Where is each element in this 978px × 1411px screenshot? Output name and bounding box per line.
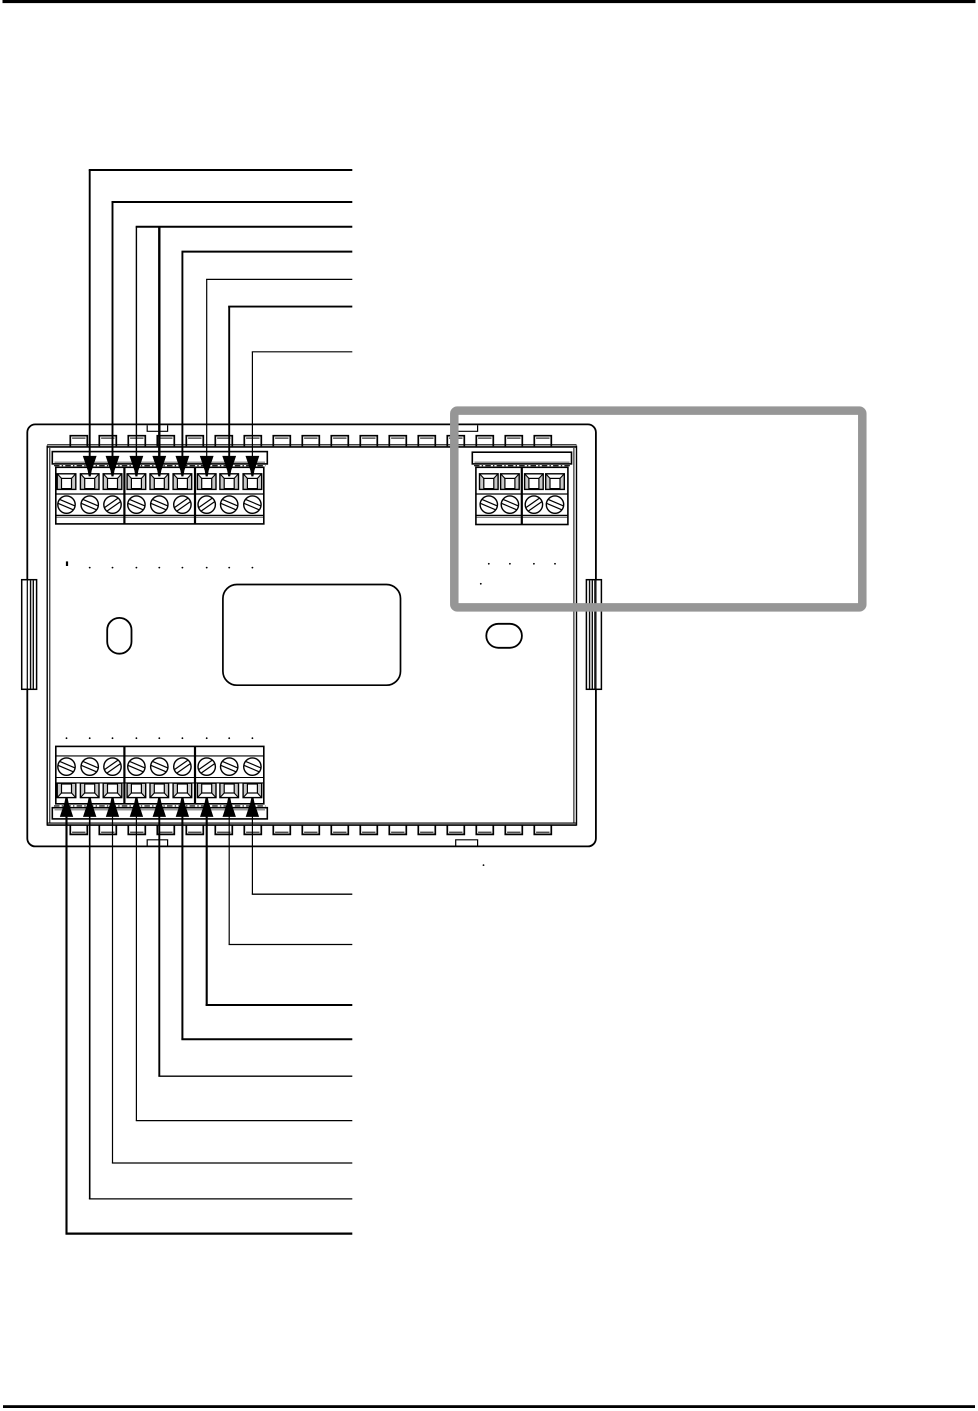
aux terminal 2 screw <box>501 496 518 513</box>
top terminal 1 wire entry <box>57 474 61 490</box>
arrow into top terminal 6 <box>176 456 190 477</box>
sub-base castellated bottom edge <box>47 824 576 826</box>
top terminal 3 wire entry <box>103 474 107 490</box>
aux terminal 3 screw <box>525 496 542 513</box>
bottom-left terminal block cover strip <box>52 808 267 819</box>
sub-base panel right edge <box>576 446 578 826</box>
bottom-left terminal block body <box>56 746 264 803</box>
wire to top terminal 5 <box>158 226 160 460</box>
aux terminal 1 screw <box>480 496 497 513</box>
right oval hole <box>486 624 522 648</box>
top terminal 4 wire entry <box>127 474 131 490</box>
top terminal 2 wire entry <box>80 474 84 490</box>
top-right terminal block cover strip <box>472 452 571 464</box>
bottom-left terminal block hinge dash line <box>54 805 266 807</box>
top-left block group dividers <box>123 467 125 524</box>
arrow into bottom terminal 7 <box>200 797 213 817</box>
arrow into top terminal 4 <box>130 456 144 477</box>
top terminal 6 screw <box>174 496 191 513</box>
bottom terminal 7 screw <box>198 758 215 775</box>
bottom terminal 8 screw <box>221 758 238 775</box>
top-left terminal id marks <box>66 561 68 566</box>
top terminal 2 screw <box>81 496 98 513</box>
bottom terminal 5 wire entry <box>150 783 154 797</box>
wire to bottom terminal 5 <box>158 814 160 1077</box>
top-right terminal block hinge dash line <box>474 465 570 467</box>
top terminal 3 screw <box>104 496 121 513</box>
wire to top terminal 9 <box>251 352 253 460</box>
aux terminal 1 wire entry <box>480 474 484 490</box>
top terminal 5 screw <box>151 496 168 513</box>
wire to bottom terminal 4 <box>135 814 137 1121</box>
arrow into top terminal 7 <box>200 456 214 477</box>
header bar <box>3 0 976 3</box>
bottom terminal 3 wire entry <box>103 783 107 797</box>
top terminal 1 screw <box>58 496 75 513</box>
wire to bottom terminal 7 <box>206 814 208 1006</box>
wire to bottom terminal 8 <box>228 814 230 945</box>
wire to bottom terminal 6 <box>181 814 183 1040</box>
right mounting rail <box>586 580 601 690</box>
bottom terminal 1 screw <box>58 758 75 775</box>
top terminal 9 wire entry <box>243 474 247 490</box>
aux terminal 4 screw <box>546 496 563 513</box>
bottom terminal 4 wire entry <box>127 783 131 797</box>
arrow into bottom terminal 5 <box>153 797 166 817</box>
top-right terminal block body <box>476 467 568 524</box>
bottom-left terminal id marks <box>66 737 68 739</box>
bottom terminal 1 wire entry <box>57 783 61 797</box>
arrow into bottom terminal 8 <box>223 797 236 817</box>
wire to top terminal 4 <box>135 227 137 460</box>
aux terminal 3 wire entry <box>525 474 529 490</box>
bottom terminal 2 screw <box>81 758 98 775</box>
footer rule <box>3 1405 975 1408</box>
wire to top terminal 7 <box>206 279 208 459</box>
sub-base castellated top edge <box>47 444 576 446</box>
bottom terminal 4 screw <box>128 758 145 775</box>
wall plate outer case <box>27 424 596 846</box>
case mounting tab top left <box>147 425 167 431</box>
wire to bottom terminal 2 <box>89 814 91 1200</box>
arrow into bottom terminal 4 <box>130 797 143 817</box>
bottom-left block group dividers <box>123 746 125 803</box>
wire to top terminal 8 <box>228 306 230 459</box>
arrow into bottom terminal 3 <box>106 797 119 817</box>
top terminal 5 wire entry <box>150 474 154 490</box>
top-left terminal block body <box>56 467 264 524</box>
bottom terminal 9 screw <box>244 758 261 775</box>
footer dot <box>483 864 485 866</box>
bottom terminal 7 wire entry <box>197 783 201 797</box>
arrow into top terminal 3 <box>106 456 120 477</box>
top terminal 8 screw <box>221 496 238 513</box>
case mounting tab bottom right <box>456 840 478 846</box>
arrow into top terminal 5 <box>152 456 166 477</box>
top terminal 7 screw <box>198 496 215 513</box>
arrow into bottom terminal 9 <box>246 797 259 817</box>
arrow into bottom terminal 6 <box>176 797 189 817</box>
top terminal 6 wire entry <box>173 474 177 490</box>
top terminal 4 screw <box>128 496 145 513</box>
wire to top terminal 2 <box>89 170 91 460</box>
bottom terminal 5 screw <box>151 758 168 775</box>
aux terminal 2 wire entry <box>501 474 505 490</box>
top-right terminal id marks <box>488 563 490 565</box>
top-right block group divider <box>521 467 523 524</box>
top terminal 7 wire entry <box>197 474 201 490</box>
top-left terminal block cover strip <box>52 452 267 464</box>
wire to top terminal 3 <box>112 202 114 460</box>
left mounting rail <box>22 580 37 690</box>
arrow into top terminal 2 <box>83 456 97 477</box>
case mounting tab top right <box>456 425 478 431</box>
arrow into bottom terminal 2 <box>83 797 96 817</box>
bottom terminal 2 wire entry <box>80 783 84 797</box>
wire to bottom terminal 3 <box>112 814 114 1164</box>
bottom terminal 6 wire entry <box>173 783 177 797</box>
arrow into bottom terminal 1 <box>60 797 73 817</box>
bottom terminal 9 wire entry <box>243 783 247 797</box>
wire to top terminal 6 <box>181 251 183 459</box>
wire to bottom terminal 9 <box>251 814 253 895</box>
bottom terminal 8 wire entry <box>220 783 224 797</box>
arrow into top terminal 8 <box>222 456 236 477</box>
aux terminal 4 wire entry <box>546 474 550 490</box>
central display opening <box>223 585 401 686</box>
top terminal 8 wire entry <box>220 474 224 490</box>
wire to bottom terminal 1 <box>65 814 67 1235</box>
top terminal 9 screw <box>244 496 261 513</box>
bottom terminal 3 screw <box>104 758 121 775</box>
arrow into top terminal 9 <box>246 456 260 477</box>
gray callout highlight box <box>454 411 862 608</box>
top-left terminal block hinge dash line <box>54 465 266 467</box>
sub-base panel left edge <box>46 446 48 826</box>
bottom terminal 6 screw <box>174 758 191 775</box>
left oval hole <box>107 618 131 654</box>
case mounting tab bottom left <box>147 840 167 846</box>
